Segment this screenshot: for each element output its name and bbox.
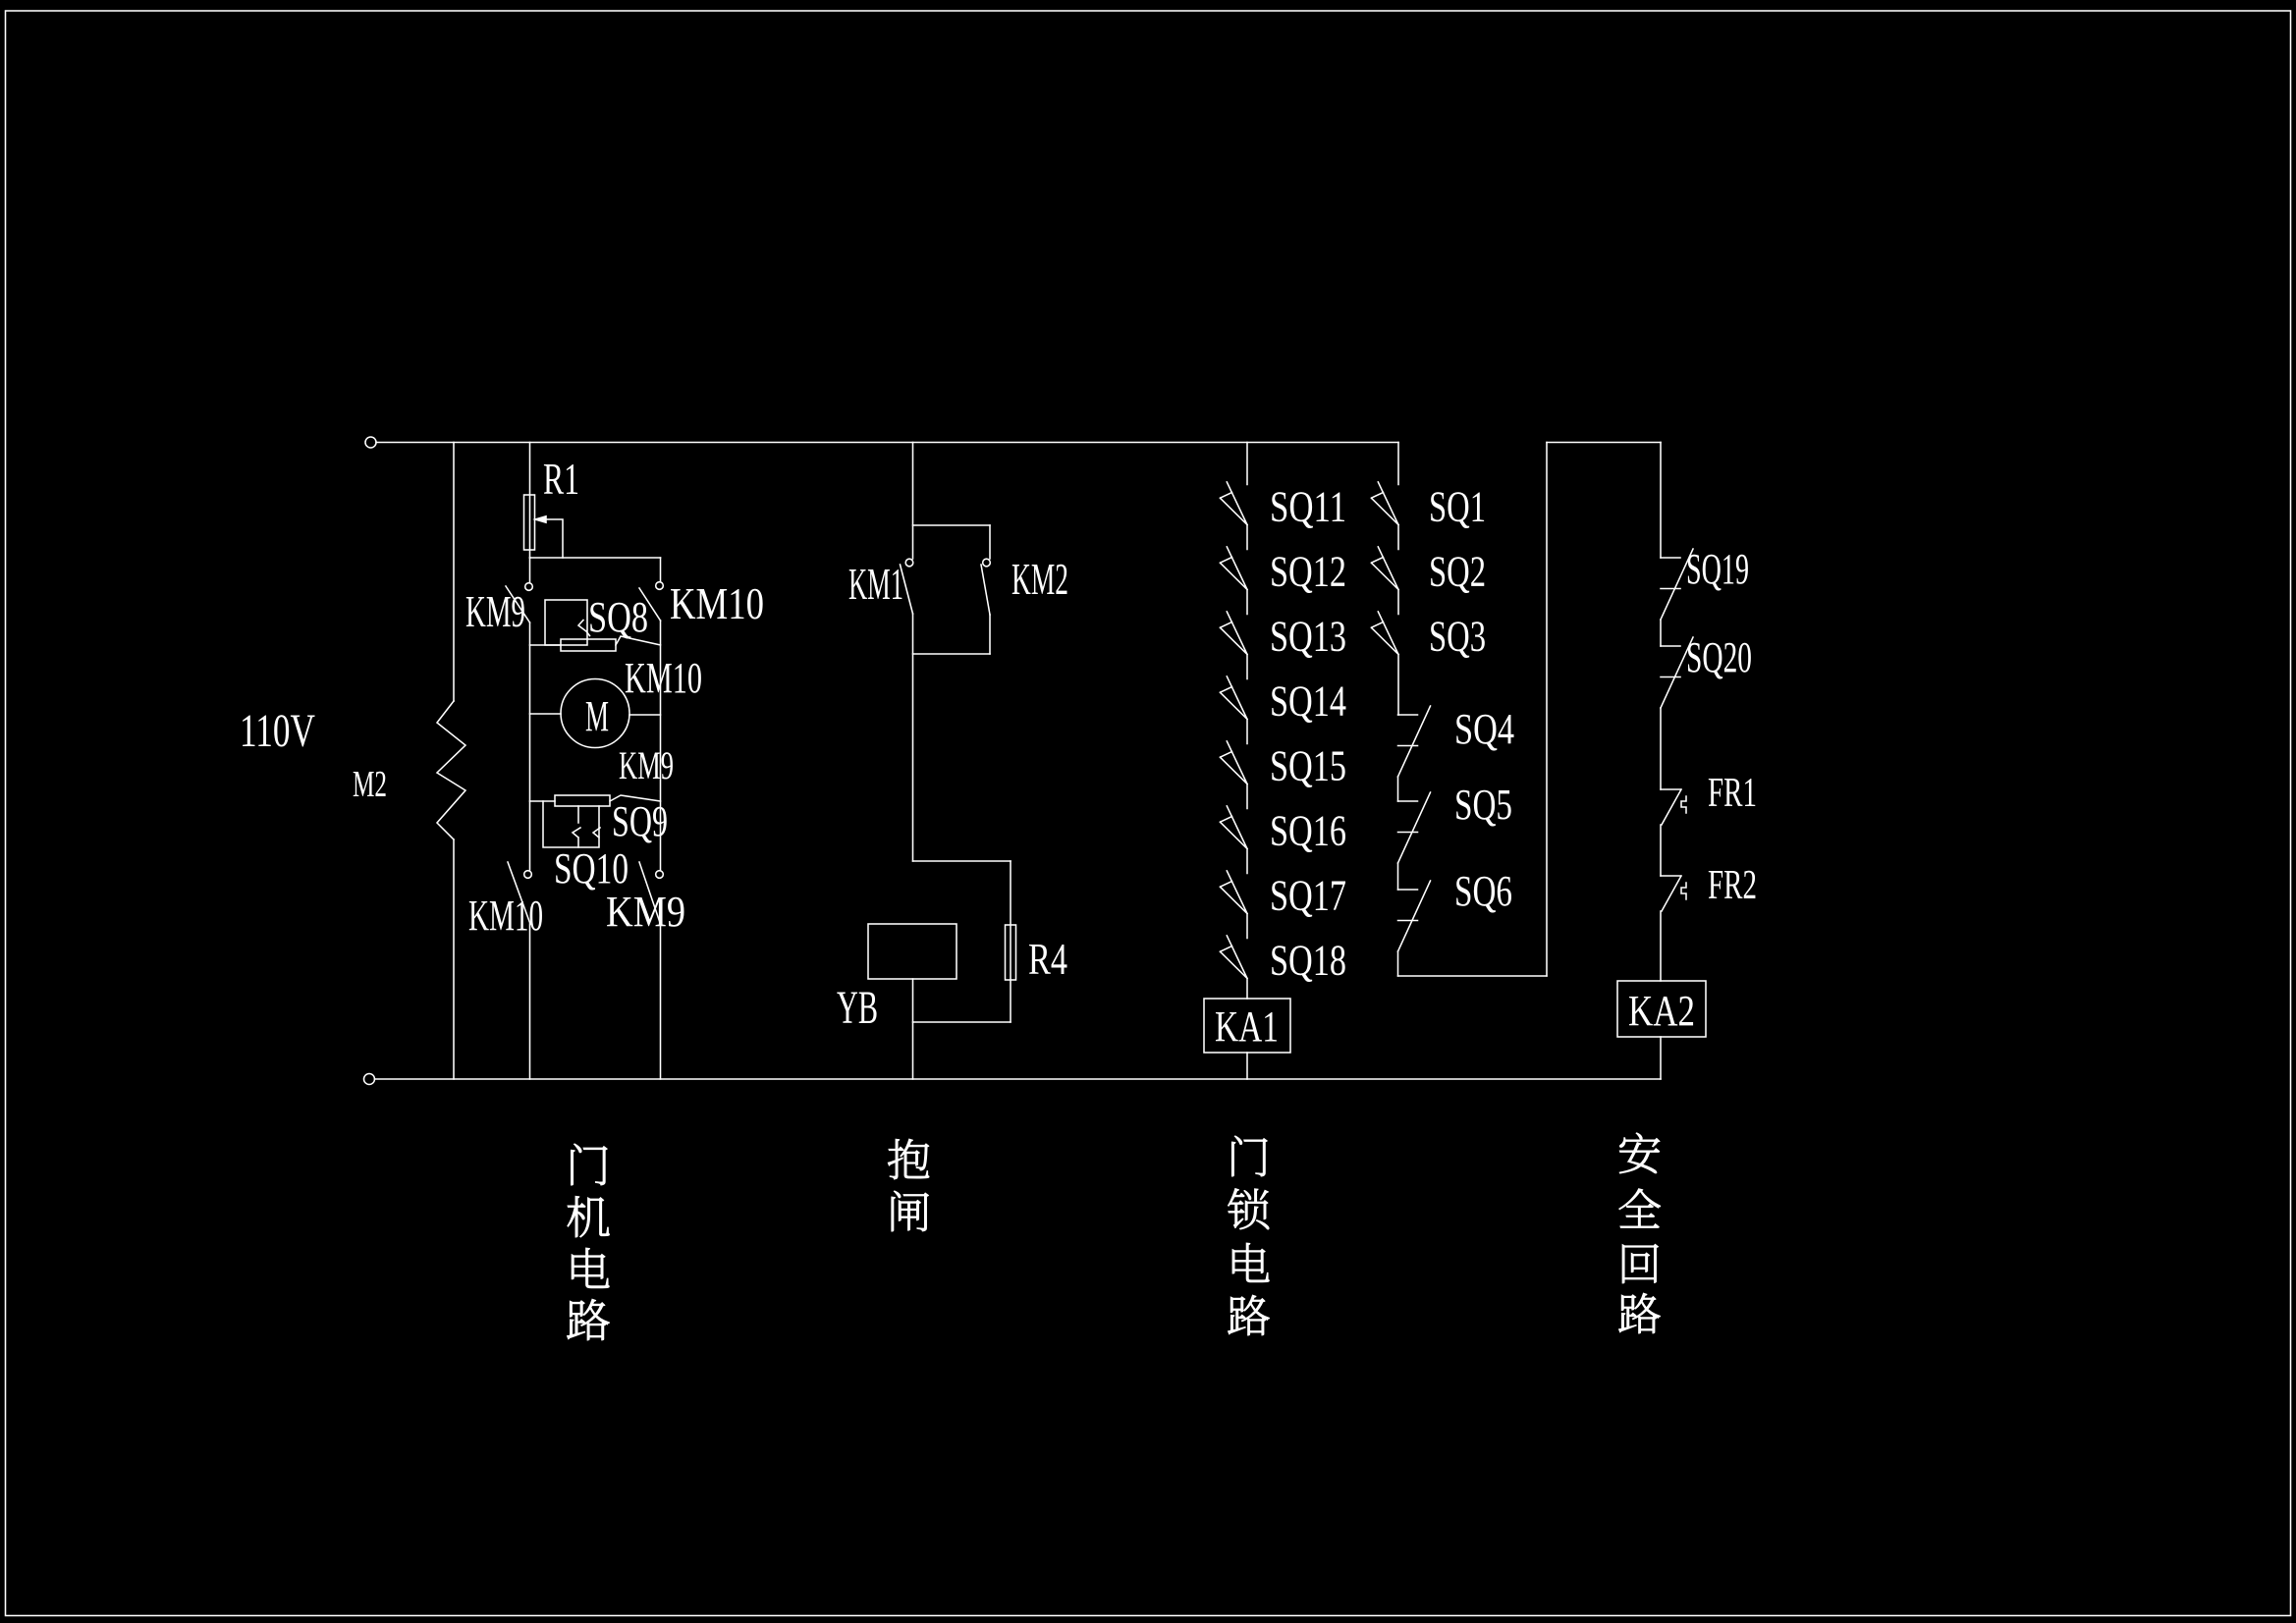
svg-text:SQ17: SQ17 <box>1270 872 1346 920</box>
svg-text:110V: 110V <box>240 705 315 757</box>
svg-text:SQ4: SQ4 <box>1454 705 1514 753</box>
svg-text:KM10: KM10 <box>625 654 702 702</box>
label section brake (bao zha) <box>888 1139 929 1231</box>
switch SQ16 <box>1220 806 1247 849</box>
switch SQ3 <box>1371 612 1398 655</box>
switch SQ15 <box>1220 741 1247 784</box>
switch SQ14 <box>1220 676 1247 720</box>
wire top bus <box>376 442 1398 444</box>
svg-text:FR2: FR2 <box>1708 863 1757 908</box>
switch SQ9 blade <box>610 795 661 801</box>
wire door-lock chain segment 7 <box>1246 914 1248 939</box>
wire SQ4 to SQ5 <box>1397 777 1399 801</box>
wire safety loop top <box>1547 442 1661 444</box>
wire R4 parallel top <box>913 860 1011 862</box>
wire safety loop bottom link <box>1398 975 1548 977</box>
wire KM2 parallel top <box>913 524 991 526</box>
svg-text:SQ12: SQ12 <box>1270 548 1346 596</box>
wire KM2 branch lower <box>989 615 991 654</box>
svg-text:SQ13: SQ13 <box>1270 613 1346 661</box>
switch SQ19 <box>1661 549 1693 620</box>
svg-text:SQ18: SQ18 <box>1270 937 1346 985</box>
contactor KM1 NO contact <box>905 559 913 567</box>
contactor KM2 NO contact <box>983 559 991 567</box>
resistor R4 <box>1006 925 1016 980</box>
wire interlock segment 2 <box>1397 590 1399 615</box>
svg-text:KM2: KM2 <box>1011 554 1068 604</box>
wire to KA1 <box>1246 979 1248 1000</box>
wire door-lock chain segment 4 <box>1246 720 1248 744</box>
wire KM1 lower <box>912 614 914 861</box>
wire R1 branch top <box>529 443 531 559</box>
wire brake branch bottom <box>912 979 914 1079</box>
contactor KM9 bottom NO contact <box>656 871 664 879</box>
switch SQ6 <box>1398 881 1431 951</box>
wire R1 wiper <box>547 519 563 558</box>
switch SQ9 housing box <box>543 801 599 847</box>
contactor KM10 bottom NO contact <box>524 871 532 879</box>
switch SQ8 blade <box>616 636 661 645</box>
wire bottom bus <box>375 1078 1662 1080</box>
wire door-lock chain segment 6 <box>1246 849 1248 874</box>
thermal relay contact FR1 <box>1661 789 1686 825</box>
contactor KM10 top NO contact <box>660 558 662 581</box>
wire SQ6 down <box>1397 951 1399 976</box>
label section safety loop (an quan hui lu) <box>1618 1133 1660 1333</box>
wire SQ5 to SQ6 <box>1397 863 1399 890</box>
svg-text:SQ11: SQ11 <box>1270 483 1346 531</box>
thermal relay contact FR2 <box>1661 876 1686 911</box>
wire brake branch top <box>912 443 914 560</box>
switch SQ12 <box>1220 547 1247 590</box>
switch SQ18 <box>1220 936 1247 979</box>
switch SQ4 <box>1398 706 1431 777</box>
node top supply terminal <box>365 437 376 448</box>
switch SQ13 <box>1220 612 1247 655</box>
wire door-lock chain segment 2 <box>1246 590 1248 615</box>
svg-text:KM10: KM10 <box>468 892 543 940</box>
svg-text:YB: YB <box>837 982 878 1034</box>
node bottom supply terminal <box>364 1074 375 1085</box>
wire KA2 to bus <box>1660 1037 1662 1079</box>
switch SQ17 <box>1220 871 1247 914</box>
svg-text:KM9: KM9 <box>606 888 685 936</box>
svg-text:R4: R4 <box>1028 934 1067 984</box>
wire motor right lead <box>629 714 661 716</box>
svg-text:KA1: KA1 <box>1215 1002 1279 1051</box>
wire FR1 to FR2 <box>1660 825 1662 876</box>
contactor KM9 top NO contact <box>529 558 531 582</box>
svg-text:SQ14: SQ14 <box>1270 677 1346 726</box>
svg-text:KM9: KM9 <box>619 743 674 787</box>
switch SQ8 housing box <box>545 600 587 645</box>
wire interlock segment 1 <box>1397 525 1399 550</box>
svg-text:SQ20: SQ20 <box>1686 633 1752 681</box>
wire left column mid <box>529 622 531 870</box>
wire KM2 parallel bottom <box>913 653 991 655</box>
svg-text:SQ1: SQ1 <box>1429 483 1486 531</box>
wire KM2 branch upper <box>989 525 991 559</box>
svg-text:KM1: KM1 <box>848 559 903 609</box>
resistor R1 <box>524 495 535 550</box>
wire R4 parallel bottom <box>913 1021 1011 1023</box>
wire door-lock chain top <box>1246 443 1248 485</box>
switch SQ9 plunger <box>573 806 600 847</box>
switch SQ2 <box>1371 547 1398 590</box>
wire bridge top rail <box>530 557 661 559</box>
wire SQ3 to SQ4 <box>1397 655 1399 716</box>
wire door-lock chain segment 5 <box>1246 784 1248 809</box>
label section door lock circuit (men suo dian lu) <box>1228 1136 1269 1335</box>
wire FR2 to KA2 <box>1660 911 1662 981</box>
wire door-lock chain segment 1 <box>1246 525 1248 550</box>
switch SQ20 <box>1661 637 1693 708</box>
wire right column bottom <box>660 924 662 1079</box>
svg-text:SQ6: SQ6 <box>1454 867 1512 915</box>
svg-text:SQ16: SQ16 <box>1270 807 1346 855</box>
wire door-lock chain segment 3 <box>1246 655 1248 679</box>
resistor M2 <box>437 701 465 839</box>
svg-text:SQ9: SQ9 <box>612 797 668 845</box>
relay coil KA2 <box>1617 981 1706 1037</box>
wire right column mid <box>660 621 662 870</box>
svg-text:KM10: KM10 <box>670 578 764 628</box>
wire KA1 to bus <box>1246 1053 1248 1079</box>
wire interlock chain top <box>1397 443 1399 485</box>
motor M circle <box>561 679 629 748</box>
svg-text:SQ8: SQ8 <box>588 593 648 641</box>
svg-text:SQ10: SQ10 <box>554 844 629 893</box>
wire SQ19 to SQ20 <box>1660 620 1662 646</box>
wire M2 branch lower <box>453 839 455 1079</box>
wire left column bottom <box>529 924 531 1079</box>
wire SQ8 row left stub <box>530 644 562 646</box>
wire SQ20 to FR1 <box>1660 708 1662 789</box>
label section door motor circuit (men ji dian lu) <box>568 1144 610 1340</box>
wire M2 branch upper <box>453 443 455 702</box>
svg-text:M2: M2 <box>353 764 387 805</box>
svg-text:SQ5: SQ5 <box>1454 781 1512 829</box>
svg-text:M: M <box>585 692 609 740</box>
svg-text:FR1: FR1 <box>1708 771 1757 816</box>
svg-text:SQ3: SQ3 <box>1429 613 1486 661</box>
svg-text:SQ19: SQ19 <box>1686 545 1749 593</box>
svg-text:KM9: KM9 <box>465 586 525 636</box>
wire R4 branch upper <box>1010 861 1011 1022</box>
svg-text:KA2: KA2 <box>1628 987 1695 1035</box>
switch SQ9 resistor element <box>555 795 610 806</box>
brake coil YB <box>868 924 957 979</box>
svg-text:SQ2: SQ2 <box>1429 548 1486 596</box>
wire safety loop left riser <box>1546 443 1548 977</box>
switch SQ5 <box>1398 792 1431 863</box>
switch SQ8 resistor element <box>561 639 616 651</box>
svg-text:R1: R1 <box>543 454 579 504</box>
relay coil KA1 <box>1204 999 1290 1053</box>
switch SQ8 actuator arrow <box>578 621 590 636</box>
wire SQ9 row left stub <box>530 800 556 802</box>
wire motor left lead <box>530 713 562 715</box>
wire safety chain top <box>1660 443 1662 559</box>
switch SQ11 <box>1220 482 1247 525</box>
switch SQ1 <box>1371 482 1398 525</box>
svg-text:SQ15: SQ15 <box>1270 742 1346 790</box>
